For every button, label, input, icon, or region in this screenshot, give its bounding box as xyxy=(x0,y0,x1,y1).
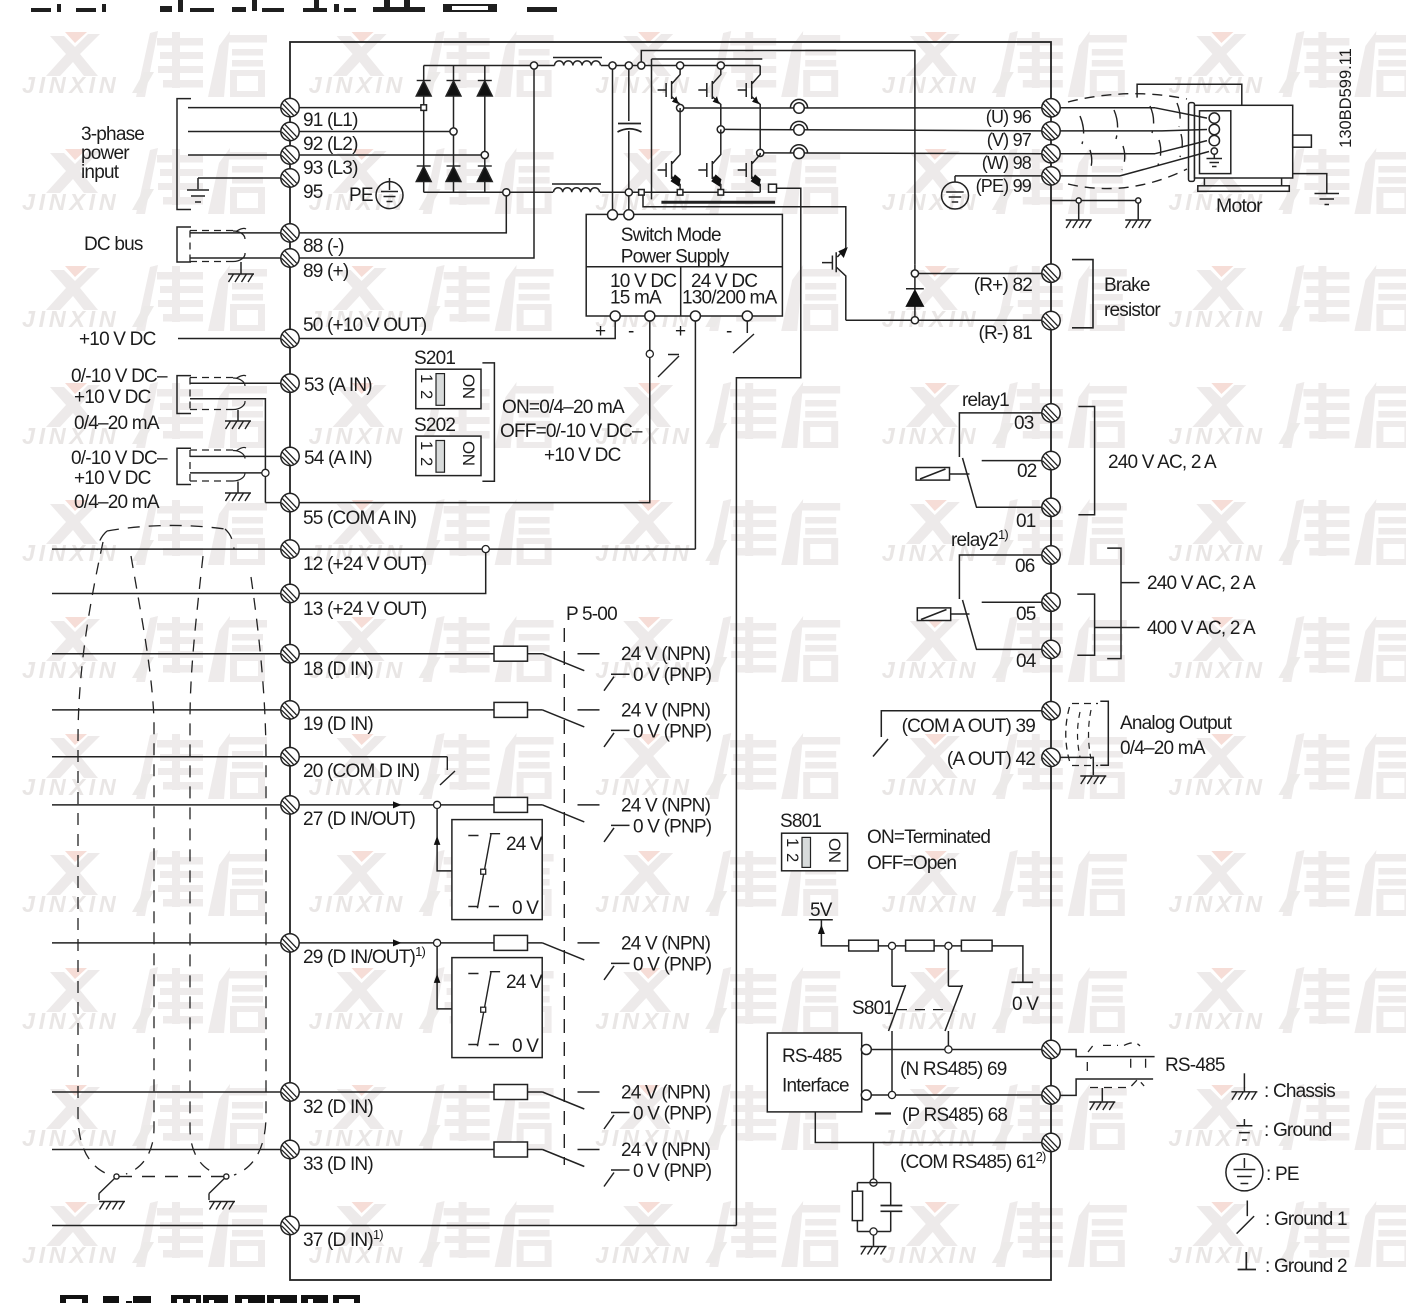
wire R+ xyxy=(919,273,1042,275)
terminal 98 xyxy=(1042,145,1060,163)
arrow up 5V xyxy=(818,925,825,935)
wire A OUT 42 to ground xyxy=(1060,757,1093,775)
node L3-bridge xyxy=(481,151,488,158)
svg-text:27 (D IN/OUT): 27 (D IN/OUT) xyxy=(303,809,416,830)
node RC top xyxy=(870,1179,877,1186)
cropped page title fragments (top) xyxy=(31,0,557,12)
minus sign at interface xyxy=(875,1112,891,1114)
junction 54-shield to COM xyxy=(262,469,269,476)
PE symbol circle at output xyxy=(942,182,969,209)
relay1 coil K1 xyxy=(916,468,949,481)
relay1 wire 03 xyxy=(959,413,1041,457)
wire row 13 (external, left) xyxy=(52,593,281,595)
motor base xyxy=(1204,178,1281,186)
node SMPS+/DC+ xyxy=(609,62,616,69)
earth ground at motor xyxy=(1315,194,1340,205)
wire COM to terminal 61 xyxy=(815,1112,1041,1143)
junction 12/13 xyxy=(482,546,489,553)
wire SMPS+ drop from DC+ xyxy=(612,66,614,210)
DIP switch S801 xyxy=(782,833,848,871)
relay2 wire 06 xyxy=(959,555,1041,599)
legend ground symbol xyxy=(1236,1119,1252,1140)
svg-text:37 (D IN)1): 37 (D IN)1) xyxy=(303,1227,383,1251)
DC+ rail (top) xyxy=(424,65,761,67)
svg-text:Switch Mode: Switch Mode xyxy=(621,225,721,246)
RC capacitor xyxy=(881,1206,903,1212)
relay1 wire 02 xyxy=(982,460,1042,462)
svg-text:0/-10 V DC–: 0/-10 V DC– xyxy=(71,448,168,469)
input network row 18 xyxy=(494,644,712,691)
rectifier bridge mid leg xyxy=(453,66,455,193)
DIP switch S201 xyxy=(416,369,481,409)
terminal 06 xyxy=(1042,546,1060,564)
chassis ground under 53 shield xyxy=(225,421,251,429)
DC choke top xyxy=(553,57,602,59)
terminal 42 xyxy=(1042,748,1060,766)
rectifier diode D2 xyxy=(447,80,461,82)
ground-1 mark row 20 xyxy=(440,757,455,785)
terminal 69 xyxy=(1042,1040,1060,1058)
svg-text:130/200 mA: 130/200 mA xyxy=(682,288,778,309)
legend ground-1 symbol xyxy=(1237,1201,1255,1234)
svg-text:55 (COM A IN): 55 (COM A IN) xyxy=(303,508,417,529)
wire PE 99 to PE symbol xyxy=(955,176,1042,182)
SMPS input pin a xyxy=(608,210,618,220)
terminal 29 xyxy=(281,934,299,952)
24V/0V selector box at row 29 xyxy=(452,958,543,1058)
wire R2-R3 xyxy=(934,945,961,947)
svg-text:93 (L3): 93 (L3) xyxy=(303,158,358,179)
IGBT Q1L (bottom, col 1) xyxy=(658,108,681,192)
chassis ground under DC bus shield xyxy=(228,274,254,282)
P 5-00 dashed selector line xyxy=(563,628,565,1165)
svg-text:1: 1 xyxy=(417,374,435,383)
input network row 27 xyxy=(494,795,712,842)
svg-text:33 (D IN): 33 (D IN) xyxy=(303,1154,373,1175)
rectifier diode D4 xyxy=(417,165,431,167)
relay2 coil link xyxy=(951,613,970,615)
shield clamp 1 xyxy=(114,1174,119,1179)
chassis ground 2 (motor cable) xyxy=(1125,220,1151,228)
terminal 19 xyxy=(281,701,299,719)
svg-text:+10 V DC: +10 V DC xyxy=(74,387,151,408)
chassis ground at 42 xyxy=(1080,776,1106,784)
phase node 3 xyxy=(757,149,764,156)
svg-text:(R+) 82: (R+) 82 xyxy=(974,275,1033,296)
svg-text:: Chassis: : Chassis xyxy=(1264,1081,1335,1102)
terminal 32 xyxy=(281,1083,299,1101)
chassis ground at RC xyxy=(861,1247,887,1255)
relay1 bracket xyxy=(1078,407,1094,515)
svg-text:(W) 98: (W) 98 xyxy=(982,153,1032,173)
current transducer on phase (y=108) xyxy=(790,99,807,113)
svg-text:: Ground 2: : Ground 2 xyxy=(1265,1256,1347,1277)
wire 68 external xyxy=(1060,1079,1153,1095)
RS-485 shield drain xyxy=(1101,1088,1103,1101)
terminal 91 xyxy=(281,98,299,116)
junction 61/RC xyxy=(873,1143,875,1180)
IGBT Q3L (bottom, col 3) xyxy=(738,153,761,192)
wire row 19 internal xyxy=(299,709,494,711)
svg-text:130BD599.11: 130BD599.11 xyxy=(1337,48,1355,148)
input network row 32 xyxy=(494,1083,712,1130)
node term2 xyxy=(945,942,952,949)
wire P to terminal 68 xyxy=(871,1094,1041,1096)
svg-text:ON=0/4–20 mA: ON=0/4–20 mA xyxy=(502,397,625,418)
wire L3 input xyxy=(188,154,281,156)
svg-text:29 (D IN/OUT)1): 29 (D IN/OUT)1) xyxy=(303,944,425,968)
wire V into motor xyxy=(1162,130,1207,131)
drain stub 2 xyxy=(1137,203,1139,220)
rectifier diode D1 xyxy=(417,80,431,82)
svg-text:12 (+24 V OUT): 12 (+24 V OUT) xyxy=(303,554,427,575)
wire row 37 internal xyxy=(299,1225,736,1227)
wire 10V+ to terminal 50 xyxy=(299,321,615,339)
terminal 92 xyxy=(281,122,299,140)
stub 24V- xyxy=(746,321,748,333)
54 shield ground stub xyxy=(237,482,239,494)
svg-text:2: 2 xyxy=(783,853,801,862)
inverter emitter return bus xyxy=(643,192,846,248)
junction 10V- ground reference xyxy=(646,350,653,357)
node L1-bridge xyxy=(421,105,427,111)
motor terminal u xyxy=(1209,113,1219,123)
node 89/DC+ xyxy=(530,62,537,69)
svg-text:: PE: : PE xyxy=(1266,1164,1299,1185)
SMPS output pin 24V+ xyxy=(690,311,700,321)
node Q2 collector/DC+ xyxy=(717,62,724,69)
svg-text:Interface: Interface xyxy=(782,1076,849,1097)
terminal 88 xyxy=(281,224,299,242)
svg-text:2: 2 xyxy=(417,390,435,399)
svg-text:OFF=0/-10 V DC–: OFF=0/-10 V DC– xyxy=(500,421,643,442)
relay1 wire 01 xyxy=(976,506,1042,508)
svg-text:RS-485: RS-485 xyxy=(1165,1055,1225,1076)
drain stub 1 xyxy=(1078,203,1080,220)
input network row 29 xyxy=(494,933,712,980)
node drain 1 xyxy=(1076,198,1081,203)
chassis ground under 54 shield xyxy=(225,493,251,501)
svg-text:S801: S801 xyxy=(852,998,893,1019)
brake resistor bracket xyxy=(1072,260,1093,328)
svg-text:0/-10 V DC–: 0/-10 V DC– xyxy=(71,366,168,387)
analog input 53 bracket xyxy=(177,376,191,414)
svg-text:ON: ON xyxy=(459,441,478,466)
svg-text:0/4–20 mA: 0/4–20 mA xyxy=(74,492,160,513)
svg-text:-: - xyxy=(726,321,732,342)
svg-text:(COM A OUT) 39: (COM A OUT) 39 xyxy=(902,716,1036,737)
wire DC-link cap branch xyxy=(628,66,630,210)
svg-text:0 V: 0 V xyxy=(1012,994,1039,1015)
wire W external xyxy=(1060,153,1155,155)
svg-text:92 (L2): 92 (L2) xyxy=(303,134,358,155)
node diode/R- xyxy=(911,317,918,324)
svg-text:15 mA: 15 mA xyxy=(610,288,662,309)
RC resistor xyxy=(852,1191,862,1220)
terminal 81 xyxy=(1042,311,1060,329)
SMPS output pin 24V- xyxy=(742,311,752,321)
relay2 wire 04 xyxy=(976,648,1042,650)
node L2-bridge xyxy=(450,128,457,135)
phase node 1 xyxy=(677,104,684,111)
svg-text:02: 02 xyxy=(1017,461,1037,482)
terminal 89 xyxy=(281,249,299,267)
wire +10VDC input xyxy=(178,338,281,340)
DC- rail (bottom) xyxy=(424,191,761,193)
DC bus shield ground stub xyxy=(240,262,242,274)
3-phase input bracket xyxy=(177,99,191,210)
svg-text:input: input xyxy=(81,162,120,183)
svg-text:240 V AC, 2 A: 240 V AC, 2 A xyxy=(1147,573,1256,594)
svg-text:3-phase: 3-phase xyxy=(81,124,144,145)
interface pin P xyxy=(861,1090,871,1100)
svg-text:05: 05 xyxy=(1016,604,1036,625)
terminal 39 xyxy=(1042,702,1060,720)
svg-text:+10 V DC: +10 V DC xyxy=(544,445,621,466)
wire U external xyxy=(1060,107,1155,109)
wire chopper feed from DC+ xyxy=(641,51,915,265)
input network row 19 xyxy=(494,700,712,747)
terminal 93 xyxy=(281,146,299,164)
wire 54 shield lower conductor xyxy=(190,472,265,474)
terminal 27 xyxy=(281,796,299,814)
rectifier diode D3 xyxy=(478,80,492,82)
relay2 contact arm xyxy=(963,600,977,649)
node term1 xyxy=(888,942,895,949)
wire 10V- to terminal 55 (COM A IN) xyxy=(299,321,650,503)
svg-text:S801: S801 xyxy=(780,811,821,832)
svg-text:1: 1 xyxy=(417,441,435,450)
terminal 01 xyxy=(1042,498,1060,516)
analog out bracket xyxy=(1100,701,1108,765)
svg-text:-: - xyxy=(628,321,634,342)
24V/0V selector box at row 27 xyxy=(452,820,543,920)
terminal 20 xyxy=(281,748,299,766)
wire PE into motor xyxy=(1120,152,1209,176)
svg-text:S202: S202 xyxy=(414,415,455,436)
terminal 50 xyxy=(281,329,299,347)
svg-text:Analog Output: Analog Output xyxy=(1120,713,1233,734)
arrow on row 29 wire xyxy=(393,939,402,946)
svg-text:(N RS485) 69: (N RS485) 69 xyxy=(900,1059,1007,1080)
wire row 33 (external, left) xyxy=(52,1149,281,1151)
node 88/DC- xyxy=(503,189,510,196)
svg-text:resistor: resistor xyxy=(1104,300,1161,321)
wire COM A IN left lead xyxy=(265,502,280,504)
DC choke bottom xyxy=(552,183,601,185)
PE drain wire to chassis xyxy=(1051,200,1138,202)
5V rail mark xyxy=(809,919,833,921)
svg-text:: Ground: : Ground xyxy=(1264,1120,1332,1141)
svg-text:06: 06 xyxy=(1015,556,1035,577)
S801 switch b xyxy=(945,950,963,1050)
terminal 04 xyxy=(1042,640,1060,658)
svg-text:ON: ON xyxy=(459,374,478,399)
wire 54 input xyxy=(190,455,281,457)
arrow up on selector feed 27 xyxy=(434,836,441,845)
DC bus bracket xyxy=(177,227,191,262)
terminal 13 xyxy=(281,584,299,602)
motor internal ground xyxy=(1207,154,1223,166)
junction switch-a/68 xyxy=(888,1091,895,1098)
svg-text:1: 1 xyxy=(783,838,801,847)
svg-text:P 5-00: P 5-00 xyxy=(566,604,617,625)
svg-text:5V: 5V xyxy=(810,900,833,921)
wire R1-R2 xyxy=(878,945,905,947)
wire N to terminal 69 xyxy=(871,1049,1041,1051)
analog 53 shield (dashed) xyxy=(190,378,236,410)
SMPS output pin 10V- xyxy=(645,311,655,321)
svg-text:(PE) 99: (PE) 99 xyxy=(976,176,1032,196)
DC bus shield arcs xyxy=(233,231,245,262)
IGBT Q3H (top, col 3) xyxy=(738,66,761,153)
svg-text:(V) 97: (V) 97 xyxy=(987,130,1032,150)
wire 95 PE input stub xyxy=(198,178,281,189)
wire chopper emitter to R- xyxy=(846,319,1042,321)
wire W into motor xyxy=(1155,141,1207,154)
wire row 32 internal xyxy=(299,1091,494,1093)
wire row 29 (external, left) xyxy=(52,942,281,944)
motor cable shield (dashed arcs) xyxy=(1068,94,1187,102)
wire L1 input xyxy=(188,107,281,109)
svg-text:03: 03 xyxy=(1014,413,1034,434)
chassis ground 1 (motor cable) xyxy=(1066,220,1092,228)
wire row 33 internal xyxy=(299,1149,494,1151)
wire row 27 (external, left) xyxy=(52,804,281,806)
svg-text:OFF=Open: OFF=Open xyxy=(867,853,956,874)
svg-text:400 V AC, 2 A: 400 V AC, 2 A xyxy=(1147,618,1256,639)
analog input 54 bracket xyxy=(177,448,191,484)
wire 88 riser to DC- xyxy=(299,192,506,233)
svg-text:+10 V DC: +10 V DC xyxy=(79,329,156,350)
S801 mechanical link (dashed) xyxy=(897,1009,944,1011)
cropped figure caption fragments (bottom) xyxy=(60,1295,360,1303)
svg-text:95: 95 xyxy=(303,182,323,203)
junction term2/69 xyxy=(945,1046,952,1053)
relay2 wire 05 xyxy=(982,601,1042,603)
chassis ground at RS-485 xyxy=(1089,1102,1115,1110)
relay1 contact arm xyxy=(963,458,977,507)
svg-text:ON: ON xyxy=(825,838,844,863)
ground-1 mark at 24V- xyxy=(733,334,754,353)
svg-text:88 (-): 88 (-) xyxy=(303,236,344,257)
terminal 55 xyxy=(281,493,299,511)
terminal 68 xyxy=(1042,1086,1060,1104)
svg-text:54 (A IN): 54 (A IN) xyxy=(304,448,372,469)
svg-text:(P RS485) 68: (P RS485) 68 xyxy=(902,1105,1007,1126)
brake chopper IGBT Q7 xyxy=(822,248,846,320)
wire 88 input xyxy=(190,232,281,234)
wire 89 input xyxy=(190,257,281,259)
terminal 33 xyxy=(281,1140,299,1158)
wire 89 riser to DC+ xyxy=(299,66,534,259)
interface pin N xyxy=(861,1045,871,1055)
ground symbol at 95 input xyxy=(187,190,209,202)
svg-text:+: + xyxy=(595,321,606,342)
wire row 19 (external, left) xyxy=(52,709,281,711)
svg-text:91 (L1): 91 (L1) xyxy=(303,110,358,131)
node chopper/DC+ xyxy=(638,62,645,69)
svg-text:(R-) 81: (R-) 81 xyxy=(978,323,1032,344)
wire row 13 internal xyxy=(299,553,486,594)
svg-text:04: 04 xyxy=(1016,651,1037,672)
wire 24V+ to terminal 12 xyxy=(694,321,696,549)
node gate-drive reference (square) xyxy=(769,184,777,192)
svg-text:Brake: Brake xyxy=(1104,275,1150,296)
motor M flange xyxy=(1189,103,1195,182)
wire row 27 to selector xyxy=(437,809,483,871)
svg-text:power: power xyxy=(81,143,130,164)
wire row 12 internal xyxy=(299,548,695,550)
switch mode power supply box U2 xyxy=(586,214,782,316)
current transducer on phase (y=129.9) xyxy=(790,121,807,135)
svg-text:DC bus: DC bus xyxy=(84,234,143,255)
terminal 97 xyxy=(1042,122,1060,140)
terminal 02 xyxy=(1042,451,1060,469)
junction row 29 xyxy=(434,939,441,946)
svg-text:18 (D IN): 18 (D IN) xyxy=(303,659,373,680)
svg-text:S201: S201 xyxy=(414,348,455,369)
IGBT Q1H (top, col 1) xyxy=(658,66,681,109)
DC-link capacitor C1 xyxy=(618,124,642,133)
analog 54 shield arcs xyxy=(233,447,246,481)
relay2 outer bracket xyxy=(1107,548,1121,659)
rectifier diode D5 xyxy=(447,165,461,167)
terminal 95 xyxy=(281,169,299,187)
svg-text:53 (A IN): 53 (A IN) xyxy=(304,375,372,396)
RC network frame xyxy=(857,1183,890,1232)
wire phase V to terminal 97 xyxy=(724,129,1041,131)
svg-text:0/4–20 mA: 0/4–20 mA xyxy=(74,413,160,434)
legend ground-2 symbol xyxy=(1238,1252,1256,1270)
svg-text:89 (+): 89 (+) xyxy=(303,261,349,282)
motor terminal pe xyxy=(1211,148,1217,154)
shield clamp 2 xyxy=(224,1174,229,1179)
SMPS input pin b xyxy=(624,210,634,220)
svg-text:20 (COM D IN): 20 (COM D IN) xyxy=(303,761,420,782)
arrow on row 27 wire xyxy=(393,801,402,808)
terminator resistor R2 xyxy=(906,940,935,951)
PE symbol circle at input xyxy=(376,182,403,209)
wire COM A OUT 39 xyxy=(881,711,1041,737)
wire phase U to terminal 96 xyxy=(684,107,1042,109)
inverter bottom gate bus (thick) xyxy=(661,201,775,204)
wire 69 external xyxy=(1060,1050,1154,1057)
wire row 12 (external, left) xyxy=(52,548,281,550)
RS-485 cable shield (dashed) xyxy=(1088,1043,1140,1052)
wire U into motor xyxy=(1155,108,1207,118)
wire row 18 internal xyxy=(299,653,494,655)
relay2 inner bracket xyxy=(1077,594,1094,655)
53 shield ground stub xyxy=(237,410,239,421)
relay2 inner bracket tap xyxy=(1095,627,1140,629)
svg-text:240 V AC, 2 A: 240 V AC, 2 A xyxy=(1108,452,1217,473)
svg-text:: Ground 1: : Ground 1 xyxy=(1265,1209,1347,1230)
wire phase W to terminal 98 xyxy=(764,152,1042,155)
terminal 53 xyxy=(281,374,299,392)
analog out shield (dashed) xyxy=(1066,707,1070,761)
node RC bottom xyxy=(870,1228,877,1235)
terminator resistor R3 xyxy=(961,940,992,951)
control cable bundle (dashed curves) xyxy=(107,525,225,531)
svg-text:32 (D IN): 32 (D IN) xyxy=(303,1097,373,1118)
input network row 33 xyxy=(494,1140,712,1187)
svg-text:50 (+10 V OUT): 50 (+10 V OUT) xyxy=(303,315,427,336)
terminal 61 xyxy=(1042,1133,1060,1151)
drive enclosure box xyxy=(290,42,1051,1280)
terminator resistor R1 xyxy=(849,940,879,951)
svg-text:(COM RS485) 612): (COM RS485) 612) xyxy=(900,1149,1046,1173)
